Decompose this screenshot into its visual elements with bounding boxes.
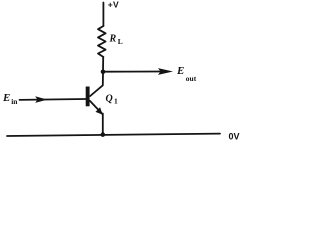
- arrowhead emitter: [96, 107, 103, 114]
- wire supply vertical: [102, 3, 104, 27]
- wire emitter to ground: [102, 114, 104, 135]
- svg-text:L: L: [118, 37, 123, 46]
- node collector junction: [101, 70, 106, 75]
- wire output branch: [103, 71, 160, 73]
- transistor Q1 base bar: [86, 87, 90, 107]
- svg-text:out: out: [186, 74, 197, 83]
- arrowhead input: [35, 96, 47, 103]
- resistor R_L: [98, 26, 106, 57]
- svg-text:1: 1: [114, 96, 118, 105]
- svg-text:Q: Q: [106, 94, 113, 105]
- svg-text:E: E: [176, 65, 184, 77]
- wire resistor to collector node: [102, 57, 104, 72]
- wire collector: [90, 73, 103, 96]
- svg-text:+V: +V: [108, 0, 119, 10]
- wire emitter: [90, 101, 103, 114]
- svg-text:R: R: [109, 34, 117, 45]
- wire ground rail 0V: [7, 134, 220, 136]
- arrowhead output: [158, 68, 173, 75]
- wire base input: [20, 98, 86, 101]
- svg-text:0V: 0V: [229, 131, 240, 141]
- svg-text:E: E: [2, 92, 10, 104]
- node emitter-ground junction: [101, 132, 106, 137]
- svg-text:in: in: [11, 97, 18, 106]
